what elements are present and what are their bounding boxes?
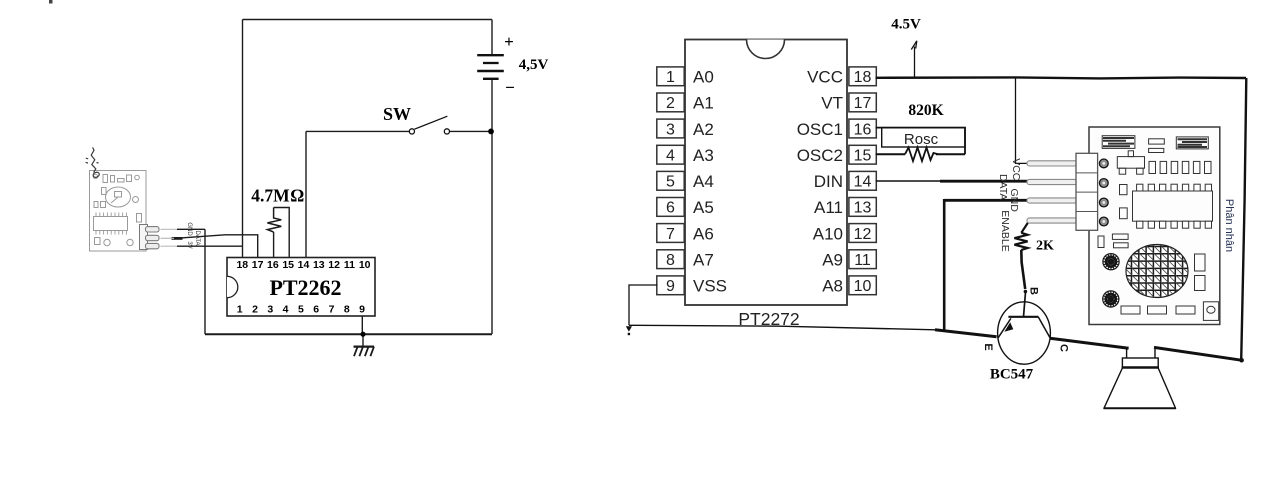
svg-text:OSC2: OSC2 [797,146,843,165]
svg-text:A5: A5 [693,198,714,217]
svg-text:DIN: DIN [814,172,843,191]
svg-text:1: 1 [237,304,243,316]
svg-text:11: 11 [854,252,871,269]
svg-text:A0: A0 [693,68,714,87]
svg-text:A4: A4 [693,172,714,191]
svg-text:3V: 3V [186,241,192,248]
svg-text:A8: A8 [822,277,843,296]
svg-text:6: 6 [313,304,319,316]
svg-text:GND: GND [186,222,192,236]
svg-text:14: 14 [298,259,310,271]
svg-text:2: 2 [252,304,258,316]
svg-text:4,5V: 4,5V [519,57,549,73]
svg-text:4: 4 [283,304,289,316]
svg-text:17: 17 [854,95,872,112]
svg-text:9: 9 [359,304,365,316]
svg-text:4.7M: 4.7M [251,186,290,206]
svg-text:ENABLE: ENABLE [999,210,1011,251]
svg-text:VCC: VCC [1010,158,1022,181]
svg-text:Rosc: Rosc [904,131,939,148]
svg-text:2K: 2K [1036,239,1054,254]
svg-text:1: 1 [666,69,675,86]
svg-text:8: 8 [666,252,675,269]
svg-text:820K: 820K [908,102,943,119]
svg-text:5: 5 [298,304,304,316]
svg-text:DATA: DATA [194,230,200,245]
svg-text:3: 3 [666,121,675,138]
svg-text:7: 7 [666,226,675,243]
svg-text:2: 2 [666,95,675,112]
svg-text:B: B [1027,287,1039,295]
svg-text:A6: A6 [693,224,714,243]
svg-text:14: 14 [854,174,872,191]
svg-text:DATA: DATA [997,174,1009,200]
svg-text:SW: SW [383,104,411,124]
svg-text:15: 15 [854,148,872,165]
svg-text:7: 7 [329,304,335,316]
svg-text:8: 8 [344,304,350,316]
svg-text:15: 15 [282,259,294,271]
svg-text:A1: A1 [693,94,714,113]
svg-text:18: 18 [854,69,872,86]
svg-text:Ω: Ω [290,186,304,206]
svg-text:18: 18 [236,259,248,271]
svg-text:VCC: VCC [807,68,843,87]
svg-text:6: 6 [666,200,675,217]
svg-text:3: 3 [267,304,273,316]
svg-text:5: 5 [666,174,675,191]
svg-text:E: E [982,343,994,350]
svg-text:13: 13 [854,200,872,217]
svg-text:A11: A11 [814,198,843,217]
svg-text:9: 9 [666,278,675,295]
svg-text:16: 16 [854,121,872,138]
svg-text:A3: A3 [693,146,714,165]
svg-text:−: − [505,78,515,97]
svg-text:12: 12 [328,259,340,271]
svg-text:A10: A10 [813,224,843,243]
svg-text:VSS: VSS [693,277,727,296]
svg-text:10: 10 [359,259,371,271]
svg-text:A9: A9 [822,251,843,270]
svg-text:C: C [1058,344,1070,352]
svg-text:12: 12 [854,226,872,243]
svg-text:13: 13 [313,259,325,271]
svg-text:PT2262: PT2262 [269,275,341,300]
svg-text:11: 11 [344,259,355,271]
svg-text:4.5V: 4.5V [891,17,921,33]
svg-text:VT: VT [821,94,843,113]
svg-text:GND: GND [1008,189,1020,213]
svg-text:17: 17 [252,259,264,271]
svg-text:16: 16 [267,259,279,271]
svg-text:OSC1: OSC1 [797,120,843,139]
svg-text:10: 10 [854,278,872,295]
svg-text:A2: A2 [693,120,714,139]
svg-text:BC547: BC547 [990,367,1034,383]
svg-text:A7: A7 [693,251,714,270]
svg-text:+: + [504,32,514,51]
svg-text:Phân nhân: Phân nhân [1223,199,1235,252]
svg-text:4: 4 [666,148,675,165]
